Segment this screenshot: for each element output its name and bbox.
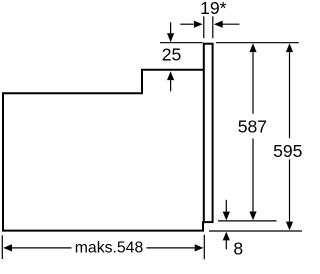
svg-text:8: 8 [233,239,243,259]
svg-text:19*: 19* [200,0,227,18]
svg-text:25: 25 [162,45,182,65]
svg-text:595: 595 [273,141,303,161]
svg-text:maks.548: maks.548 [75,240,144,257]
svg-text:587: 587 [238,117,267,137]
